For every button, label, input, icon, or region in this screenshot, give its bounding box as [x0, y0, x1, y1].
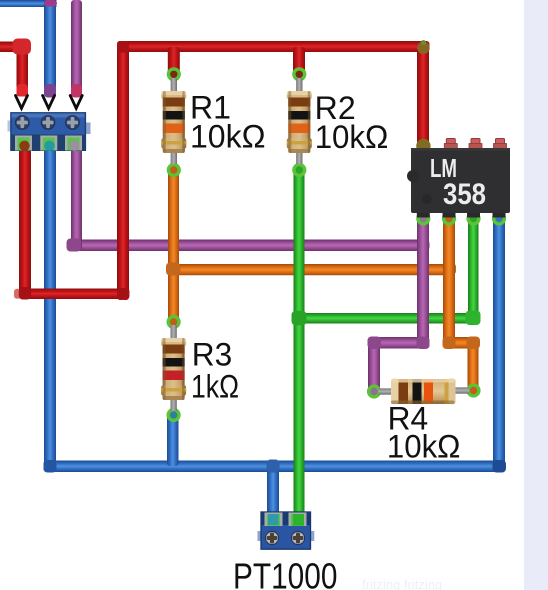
svg-text:1kΩ: 1kΩ	[191, 368, 239, 404]
svg-text:fritzing fritzing: fritzing fritzing	[362, 577, 442, 590]
svg-text:PT1000: PT1000	[233, 556, 337, 590]
svg-text:R3: R3	[192, 337, 233, 373]
svg-text:10kΩ: 10kΩ	[387, 429, 461, 465]
svg-text:10kΩ: 10kΩ	[315, 119, 389, 155]
svg-text:358: 358	[443, 178, 486, 211]
svg-text:10kΩ: 10kΩ	[190, 119, 266, 155]
